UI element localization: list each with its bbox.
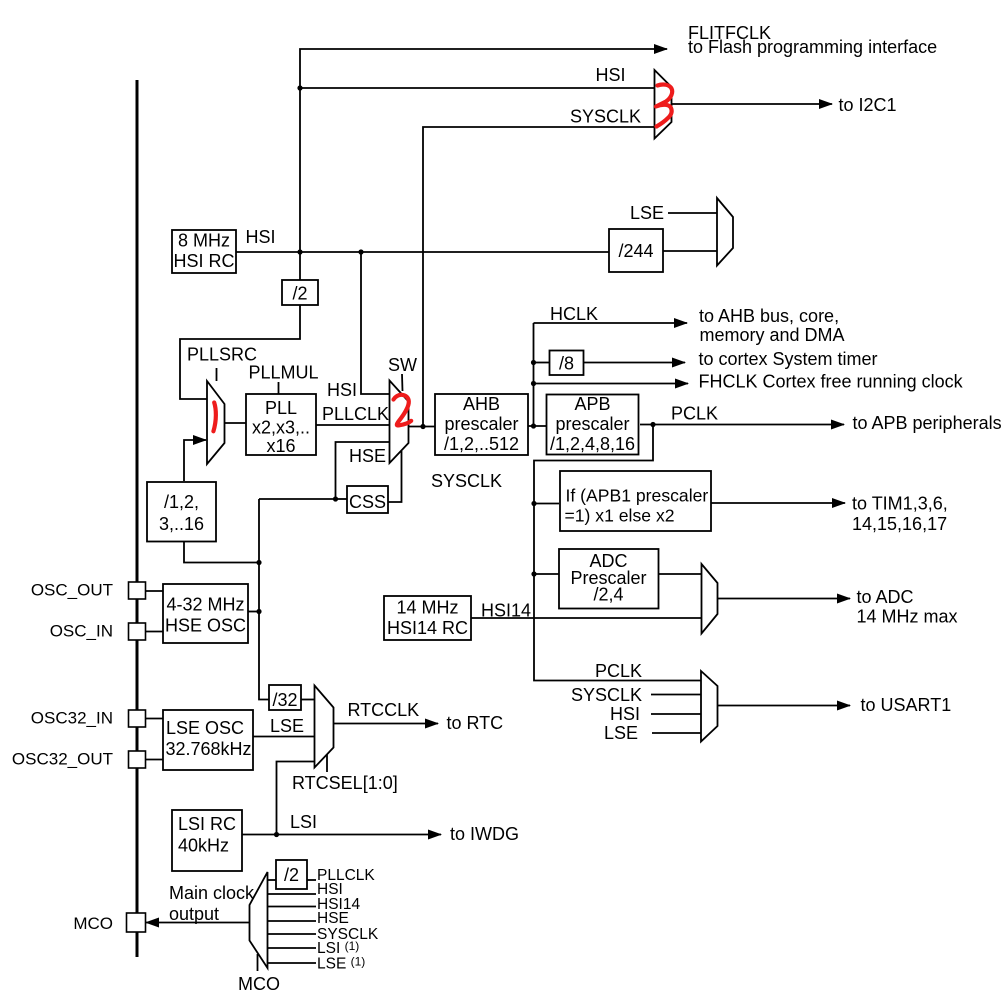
svg-text:/1,2,4,8,16: /1,2,4,8,16 (550, 434, 635, 454)
oscillator HSI RC 8 MHz (172, 230, 236, 273)
wire LSI RC output to IWDG (arrow) (242, 834, 441, 836)
node junction HSI/SW riser (361,252) (358, 249, 363, 254)
mux LSE//244 select (717, 198, 733, 266)
node junction SYSCLK (423,426.5) (420, 424, 425, 429)
svg-text:If (APB1 prescaler: If (APB1 prescaler (566, 486, 709, 506)
wire PLLCLK from PLL to SW mux (316, 424, 390, 426)
wire PCLK to APB peripherals (arrow) (640, 424, 844, 426)
pin OSC32_OUT (12, 750, 146, 769)
svg-text:to IWDG: to IWDG (450, 824, 519, 844)
wire MCO select line (257, 954, 259, 971)
wire PLLMUL select line (278, 382, 280, 394)
wire ADC mux output to ADC (arrow) (718, 598, 851, 600)
wire OSC_IN pin to HSE OSC (146, 631, 164, 633)
svg-text:3,..16: 3,..16 (159, 514, 204, 534)
wire HSI/2 path: through /2 down-left into PLLSRC mux (299, 252, 301, 280)
svg-text:to AHB bus, core,: to AHB bus, core, (699, 306, 839, 326)
svg-text:RTCSEL[1:0]: RTCSEL[1:0] (292, 773, 398, 793)
svg-text:HSI: HSI (596, 65, 626, 85)
wire LSE stub into LSE mux (668, 212, 717, 214)
wire /32 output to RTC mux (301, 699, 315, 701)
wire SW mux output to AHB prescaler (409, 426, 436, 428)
node junction HSI/vertical (300,252) (297, 249, 302, 254)
annotation red stroke on PLLSRC mux (213, 403, 215, 432)
wire PCLK return rail (534, 425, 701, 681)
wire MCO input LSE (268, 962, 317, 964)
svg-text:x2,x3,..: x2,x3,.. (252, 418, 310, 438)
svg-text:OSC32_OUT: OSC32_OUT (12, 750, 113, 769)
mux MCO source (left-facing) (250, 872, 268, 968)
svg-text:/2: /2 (284, 865, 299, 885)
mux PLLSRC (207, 381, 225, 464)
svg-text:CSS: CSS (349, 492, 386, 512)
mux USART1 clock (701, 671, 718, 742)
node junction HSE rail (259,611.5) (256, 609, 261, 614)
mux ADC clock (702, 564, 718, 634)
svg-text:to Flash programming interface: to Flash programming interface (688, 37, 937, 57)
svg-text:to I2C1: to I2C1 (839, 95, 897, 115)
node junction ADC tap (534,575.5) (531, 571, 536, 576)
wire OSC32_IN pin to LSE OSC (146, 718, 164, 720)
svg-text:to USART1: to USART1 (861, 695, 952, 715)
mux I2C source select (655, 70, 672, 139)
wire TIM multiplier output (arrow) (711, 502, 845, 504)
svg-text:PLL: PLL (265, 398, 297, 418)
svg-text:14,15,16,17: 14,15,16,17 (852, 514, 947, 534)
svg-text:/2: /2 (292, 284, 307, 304)
wire SYSCLK stub into USART mux (651, 694, 701, 696)
svg-text:HCLK: HCLK (550, 304, 598, 324)
wire MCO input HSI (268, 893, 317, 895)
svg-text:/244: /244 (618, 241, 653, 261)
svg-text:to APB peripherals: to APB peripherals (853, 413, 1002, 433)
svg-text:Main clock: Main clock (169, 883, 255, 903)
svg-text:4-32 MHz: 4-32 MHz (166, 595, 244, 615)
ADC prescaler block (559, 549, 659, 609)
svg-text:PLLSRC: PLLSRC (187, 345, 257, 365)
svg-text:HSI: HSI (246, 227, 276, 247)
wire LSE OSC output to RTC mux (253, 736, 315, 738)
svg-text:HSE: HSE (349, 446, 386, 466)
wire /1..16 prediv bottom to HSE rail (184, 540, 259, 563)
AHB prescaler block (435, 394, 528, 455)
svg-text:LSE: LSE (630, 203, 664, 223)
wire MCO input HSI14 (268, 906, 317, 908)
divider /2 (HSI) (282, 280, 318, 305)
svg-text:/1,2,..512: /1,2,..512 (444, 434, 519, 454)
wire HCLK to AHB bus (arrow) (534, 322, 688, 324)
svg-text:/32: /32 (272, 690, 297, 710)
svg-text:to cortex System timer: to cortex System timer (699, 349, 878, 369)
svg-text:x16: x16 (266, 436, 295, 456)
svg-text:LSI: LSI (290, 812, 317, 832)
wire HSE OSC output to rail (248, 611, 259, 613)
svg-text:8 MHz: 8 MHz (178, 231, 230, 251)
pin OSC32_IN (31, 709, 146, 728)
svg-text:MCO: MCO (238, 974, 280, 994)
APB prescaler block (547, 394, 639, 455)
svg-text:40kHz: 40kHz (178, 836, 229, 856)
oscillator HSI14 RC 14 MHz (384, 596, 471, 640)
wire /8 output to cortex timer (arrow) (584, 362, 686, 364)
wire CSS input stub (336, 498, 348, 500)
wire USART mux output to USART1 (arrow) (718, 705, 851, 707)
wire OSC_OUT pin to HSE OSC (146, 590, 164, 592)
svg-text:to ADC: to ADC (857, 587, 914, 607)
wire MCO input LSI (268, 947, 317, 949)
svg-text:memory and DMA: memory and DMA (700, 325, 845, 345)
svg-text:PCLK: PCLK (595, 661, 642, 681)
wire ADC prescaler output to ADC mux (659, 573, 702, 575)
svg-text:output: output (169, 904, 219, 924)
label to TIM (852, 494, 948, 535)
label FLITFCLK destination (688, 23, 937, 57)
node junction TIM tap (534,503.5) (531, 501, 536, 506)
svg-text:LSE: LSE (270, 716, 304, 736)
wire FHCLK (arrow) (534, 383, 689, 385)
svg-text:/2,4: /2,4 (593, 585, 623, 605)
wire CSS output up to SW mux slant (388, 451, 402, 502)
svg-text:AHB: AHB (463, 394, 500, 414)
svg-text:prescaler: prescaler (555, 414, 629, 434)
svg-text:LSE (1): LSE (1) (317, 955, 365, 973)
label to ADC (857, 587, 958, 627)
node junction CSS tee (335.5,499) (333, 496, 338, 501)
svg-text:32.768kHz: 32.768kHz (166, 739, 252, 759)
svg-text:OSC_OUT: OSC_OUT (31, 581, 113, 600)
mux SW (system clock switch) (390, 381, 409, 464)
svg-text:FHCLK Cortex free running cloc: FHCLK Cortex free running clock (699, 372, 964, 392)
wire OSC32_OUT pin to LSE OSC (146, 759, 164, 761)
svg-text:HSE: HSE (317, 910, 349, 927)
svg-text:PLLMUL: PLLMUL (249, 363, 319, 383)
svg-text:14 MHz: 14 MHz (396, 598, 458, 618)
wire ADC prescaler input stub (534, 573, 559, 575)
wire HSI stub into USART mux (651, 713, 701, 715)
wire PLLSRC mux to PLL (225, 422, 247, 424)
wire TIM multiplier input stub (534, 503, 559, 505)
label to AHB bus (699, 306, 845, 345)
oscillator LSI RC 40kHz (172, 810, 242, 871)
svg-text:SYSCLK: SYSCLK (570, 107, 641, 127)
wire SW select line (401, 374, 404, 391)
divider /244 (609, 229, 663, 272)
svg-text:SW: SW (388, 355, 417, 375)
prescaler /1,2,3..16 (147, 482, 216, 542)
node junction /8 tap (533.5,362.5) (531, 360, 536, 365)
divider /2 (MCO) (276, 860, 307, 889)
wire HSI drop to SW mux (361, 252, 390, 394)
svg-text:prescaler: prescaler (444, 414, 518, 434)
svg-text:OSC32_IN: OSC32_IN (31, 709, 113, 728)
svg-text:to RTC: to RTC (447, 713, 504, 733)
wire AHB prescaler to APB prescaler (528, 425, 546, 427)
wire MCO input HSE (268, 920, 317, 922)
chip boundary line (136, 80, 139, 957)
svg-text:HSI: HSI (327, 380, 357, 400)
wire HSI14 to ADC mux (471, 617, 702, 619)
wire /244 output into LSE mux (663, 250, 717, 252)
wire MCO input SYSCLK (268, 933, 317, 935)
divider /8 (550, 351, 584, 376)
svg-text:HSI RC: HSI RC (173, 251, 234, 271)
svg-text:HSE OSC: HSE OSC (165, 616, 246, 636)
label Main clock output (169, 883, 255, 924)
svg-text:SYSCLK: SYSCLK (571, 685, 642, 705)
wire RTCCLK output to RTC (arrow) (334, 723, 439, 725)
wire /8 input stub (534, 362, 550, 364)
svg-text:14 MHz max: 14 MHz max (857, 607, 958, 627)
svg-text:=1) x1 else x2: =1) x1 else x2 (565, 506, 675, 526)
svg-text:/8: /8 (559, 354, 574, 374)
svg-text:PCLK: PCLK (671, 404, 718, 424)
svg-text:/1,2,: /1,2, (164, 492, 199, 512)
pin OSC_IN (50, 622, 146, 641)
wire LSE stub into USART mux (652, 732, 701, 734)
svg-text:to TIM1,3,6,: to TIM1,3,6, (852, 494, 948, 514)
wire RTCSEL select line (326, 754, 328, 772)
node junction LSI (276.5,834.5) (274, 832, 279, 837)
node junction FHCLK tap (533.5,384.5) (531, 381, 536, 386)
svg-text:LSE: LSE (604, 723, 638, 743)
wire MCO input PLLCLK through /2 (268, 879, 317, 881)
oscillator HSE OSC 4-32 MHz (163, 584, 248, 643)
svg-text:HSI14 RC: HSI14 RC (387, 618, 468, 638)
wire HCLK rail vertical (533, 323, 535, 426)
svg-text:MCO: MCO (73, 914, 113, 933)
wire HSI main rail from HSI RC to /244 (236, 251, 609, 253)
svg-text:HSI14: HSI14 (481, 601, 531, 621)
node HSI tap junction (300,88) (297, 85, 302, 90)
wire HSE prediv to PLLSRC mux (arrow) (184, 440, 206, 481)
wire MCO mux output to MCO pin (arrow left) (146, 922, 250, 924)
wire FLITFCLK (HSI tap to Flash interface, with arrow) (300, 49, 667, 252)
oscillator LSE OSC 32.768kHz (163, 710, 253, 770)
PLL block (246, 394, 316, 456)
svg-text:OSC_IN: OSC_IN (50, 622, 113, 641)
wire HSE into SW mux and down to HSE rail (259, 442, 390, 499)
divider /32 (269, 685, 301, 710)
pin OSC_OUT (31, 581, 146, 600)
pin MCO (73, 913, 145, 933)
svg-text:HSI: HSI (610, 704, 640, 724)
wire I2C mux output to I2C1 (671, 103, 832, 105)
svg-text:LSE OSC: LSE OSC (166, 718, 244, 738)
annotation red scribble on SW mux (394, 395, 412, 426)
svg-text:SYSCLK: SYSCLK (431, 471, 502, 491)
annotation red scribble on I2C mux (656, 85, 672, 127)
wire LSI up into RTC mux (277, 762, 315, 835)
TIM multiplier block (560, 471, 711, 531)
node junction prediv tap (259,562.5) (256, 560, 261, 565)
svg-text:RTCCLK: RTCCLK (348, 700, 420, 720)
wire PLLSRC select line (216, 368, 218, 381)
svg-text:APB: APB (574, 394, 610, 414)
mux RTC clock (RTCSEL) (315, 686, 334, 768)
CSS block (347, 486, 388, 513)
node junction HCLK rail (533.5,426) (531, 423, 536, 428)
node junction PCLK (653,424.5) (650, 422, 655, 427)
svg-text:LSI RC: LSI RC (178, 814, 236, 834)
wire HSI to I2C mux (300, 87, 655, 89)
wire HSE rail (OSC output up to CSS tee and down to /32) (259, 499, 269, 700)
svg-text:PLLCLK: PLLCLK (322, 404, 389, 424)
wire SYSCLK riser to I2C mux (423, 127, 655, 427)
